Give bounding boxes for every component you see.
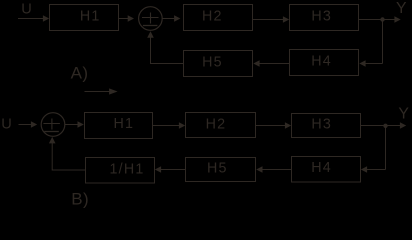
svg-text:H5: H5 [207,161,228,177]
block H5 (B) [186,158,256,182]
block H2 (A) [184,5,253,31]
wire: H4 output to block H5 (A) [253,60,289,67]
wire: H3 output to output Y (B) [361,122,407,129]
wire: 1/H1 output left and up to summing junction minus input (B) [49,137,86,171]
wire: H5 output to block 1/H1 (B) [155,166,186,173]
wire: feedback into block H4 (A) [359,60,382,67]
summing junction S1 (A), plus upper / minus lower [139,7,163,31]
svg-text:H1: H1 [80,9,101,25]
arrow: equivalence arrow below label A [85,88,118,94]
wire: input U to summing junction (B) [19,121,38,128]
node: takeoff junction dot (B) [383,124,387,128]
svg-text:U: U [1,116,12,132]
block H4 (B) [292,157,361,183]
wire: feedback vertical from takeoff junction down (B) [385,126,387,170]
svg-text:A): A) [71,64,89,83]
wire: feedback into block H4 (B) [361,166,386,173]
svg-text:H2: H2 [206,116,227,132]
node Y: output label Y (B) [398,106,409,123]
wire: summing junction to block H2 (A) [162,15,180,22]
svg-text:U: U [21,1,32,17]
wire: H1 output to block H2 (B) [153,122,186,129]
wire: H4 output to block H5 (B) [256,166,291,173]
svg-text:H4: H4 [311,160,332,176]
block H1 (B) [85,113,153,139]
wire: H3 output to output Y (A) [359,16,401,23]
block H5 (A) [184,51,253,77]
summing junction S2 (B), plus upper / minus lower [41,113,65,137]
wire: feedback vertical from takeoff junction down (A) [382,20,384,64]
svg-text:B): B) [71,189,89,208]
block H3 (B) [292,114,361,138]
node U: input label U (diagram A) [21,1,32,17]
wire: summing junction to block H1 (B) [65,121,84,128]
wire: H1 output to summing junction (A) [119,15,135,22]
label A) [71,64,89,83]
svg-text:H5: H5 [202,55,223,71]
svg-text:H3: H3 [311,9,332,25]
svg-text:H4: H4 [311,54,332,70]
wire: H2 output to block H3 (A) [253,16,290,23]
svg-text:Y: Y [396,0,407,17]
svg-text:H3: H3 [311,117,332,133]
block H3 (A) [290,5,359,31]
svg-text:H1: H1 [113,116,134,132]
block H4 (A) [290,50,359,76]
label B) [71,189,89,208]
wire: input U to block H1 (A) [18,15,49,22]
node: takeoff junction dot (A) [380,17,384,21]
wire: H2 output to block H3 (B) [256,122,292,129]
svg-text:H2: H2 [202,9,223,25]
node U: input label U (diagram B) [1,116,12,132]
svg-text:1/H1: 1/H1 [110,161,145,177]
node Y: output label Y (A) [396,0,407,17]
wire: H5 output left and up to summing junction minus input (A) [147,31,183,64]
svg-text:Y: Y [398,106,409,123]
block 1/H1 (B) [86,158,155,184]
block H2 (B) [186,113,256,138]
block H1 (A) [50,5,119,31]
